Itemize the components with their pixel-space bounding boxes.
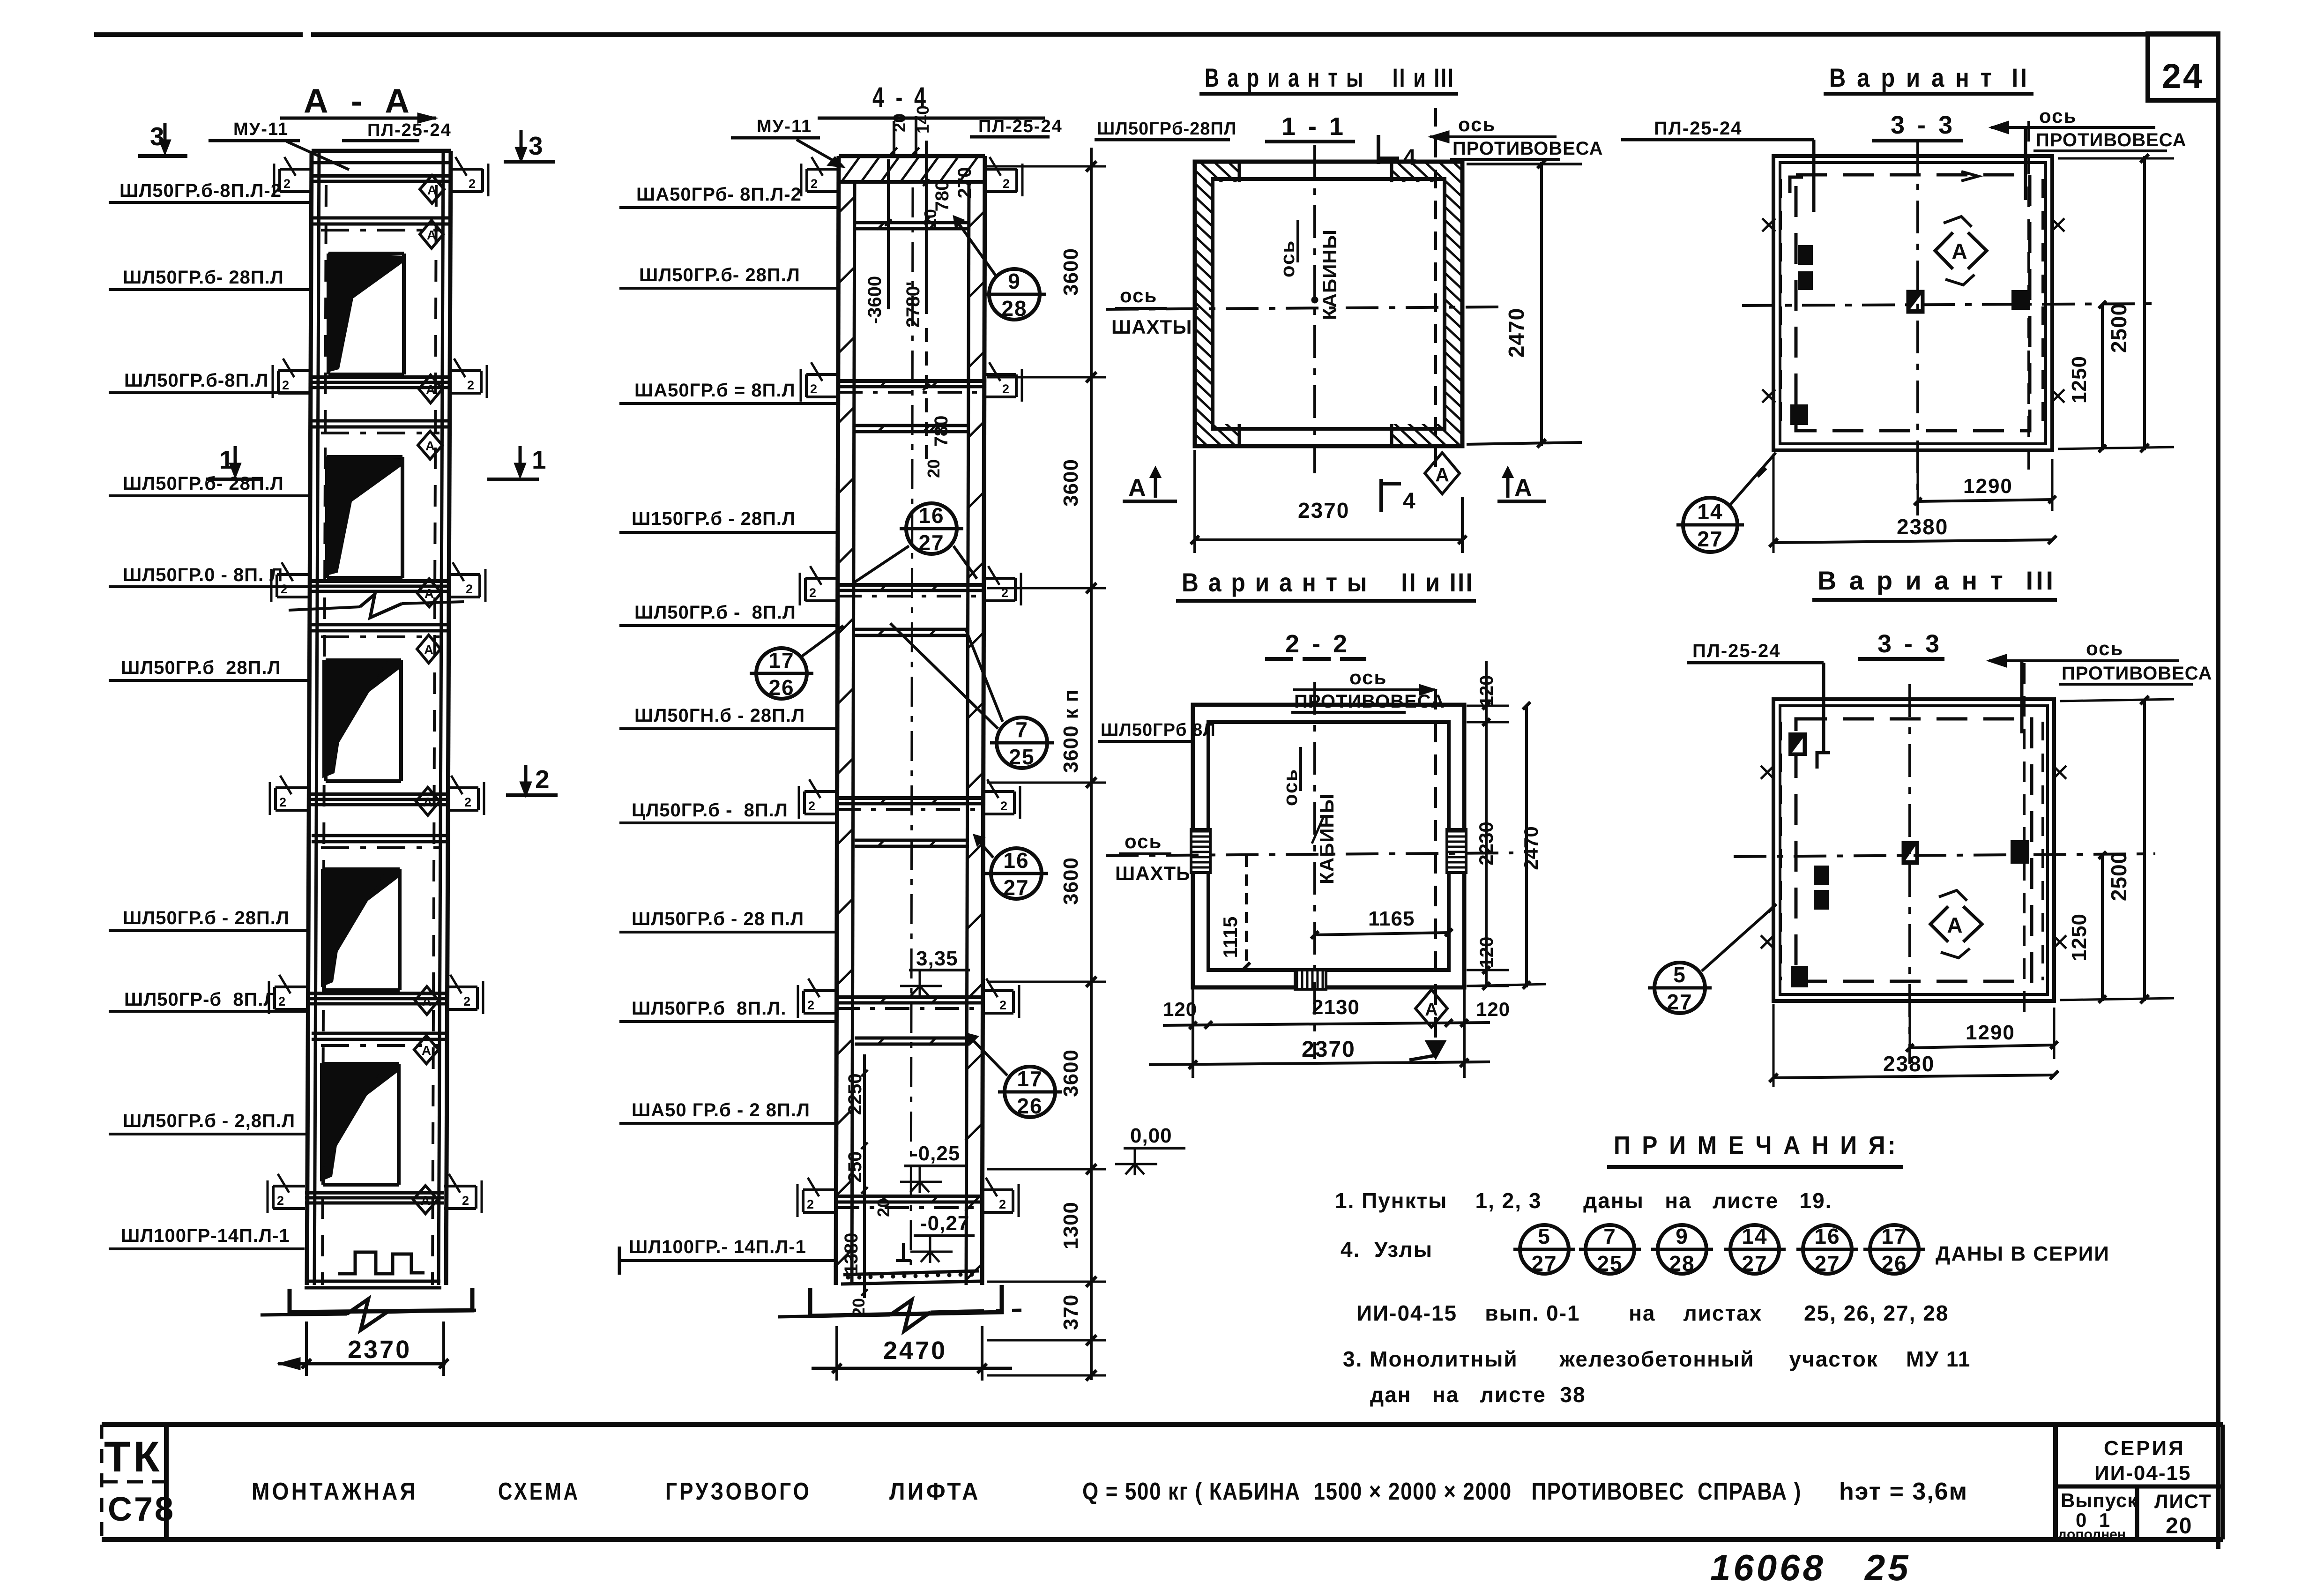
svg-text:А: А xyxy=(425,439,435,453)
4-4 level mark -0.27 xyxy=(910,1212,975,1263)
label ПЛ-25-24 (4-4) xyxy=(818,117,1063,137)
4-4 lintel band floor 2 xyxy=(855,840,969,847)
label ШЛ50ГРб-28ПЛ (1-1 plan top-left) xyxy=(1095,119,1236,140)
4-4 lintel band floor 4 xyxy=(855,425,969,433)
sheet number box 24 xyxy=(2148,34,2218,100)
svg-text:2250: 2250 xyxy=(845,1074,865,1115)
heading Вариант III xyxy=(1812,566,2057,600)
svg-text:ШЛ100ГР.- 14П.Л-1: ШЛ100ГР.- 14П.Л-1 xyxy=(629,1237,806,1257)
note node circle 5/27 xyxy=(1513,1224,1575,1276)
svg-text:2500: 2500 xyxy=(2107,303,2131,353)
plan 2-2 cab axis vertical xyxy=(1313,682,1316,1059)
4-4 left console at y=375 xyxy=(801,157,839,196)
svg-text:ТК: ТК xyxy=(104,1433,162,1481)
heading Варианты II и III (middle) xyxy=(1176,567,1476,601)
svg-text:-0,25: -0,25 xyxy=(911,1142,960,1165)
svg-text:20: 20 xyxy=(921,209,940,228)
svg-text:27: 27 xyxy=(1003,875,1029,900)
section mark 4 (top of plan 1-1) xyxy=(1378,135,1416,170)
А-А panel label ШЛ50ГР.б - 28П.Л xyxy=(109,908,307,931)
plan 1-1 shaft walls xyxy=(1195,162,1462,446)
note node circle 14/27 xyxy=(1724,1224,1786,1276)
svg-text:9: 9 xyxy=(1676,1224,1689,1248)
svg-text:2380: 2380 xyxy=(1897,515,1948,539)
А-А guide-rail diamond А at y=500 xyxy=(420,220,443,248)
А-А left console at y=375 xyxy=(274,157,312,196)
plan 2-2 bottom dims 120 2130 120 xyxy=(1163,989,1510,1078)
А-А door opening floor 4 xyxy=(327,457,402,578)
svg-text:2: 2 xyxy=(463,994,470,1008)
svg-text:ПЛ-25-24: ПЛ-25-24 xyxy=(1654,118,1742,139)
axis label ось шахты (2-2) xyxy=(1115,830,1196,884)
svg-text:ПРОТИВОВЕСА: ПРОТИВОВЕСА xyxy=(2062,663,2212,684)
А-А floor slab 3 xyxy=(307,794,447,805)
svg-text:А: А xyxy=(422,1043,431,1058)
4-4 floor slab 5 xyxy=(838,380,984,392)
svg-text:4. Узлы: 4. Узлы xyxy=(1341,1237,1433,1262)
plan 3-3 II extra dashed verticals xyxy=(1780,179,2043,429)
4-4 floor slab 2 xyxy=(835,996,982,1008)
plan 1-1 label ось кабины xyxy=(1276,220,1341,320)
4-4 left console at y=1695 xyxy=(799,779,836,819)
svg-text:А: А xyxy=(1435,464,1449,485)
svg-text:3600: 3600 xyxy=(1059,1049,1082,1097)
А-А panel label ШЛ50ГР.0 - 8П. Л xyxy=(109,565,309,587)
svg-text:2: 2 xyxy=(810,382,817,396)
section mark 3 right xyxy=(504,130,555,162)
А-А door opening floor 2 xyxy=(321,869,400,990)
svg-text:3,35: 3,35 xyxy=(916,947,958,970)
axis label ось шахты (1-1) xyxy=(1111,284,1192,338)
svg-text:2: 2 xyxy=(1002,382,1009,396)
note node circle 16/27 xyxy=(1796,1224,1858,1276)
plan 3-3 II dim 1250 xyxy=(2068,301,2106,452)
svg-text:3 - 3: 3 - 3 xyxy=(1877,630,1942,658)
А-А guide-rail diamond А at y=2135 xyxy=(415,986,439,1015)
svg-text:С78: С78 xyxy=(108,1491,175,1528)
4-4 pit interior dimensions xyxy=(841,1054,893,1317)
notes heading ПРИМЕЧАНИЯ: xyxy=(1607,1131,1903,1167)
4-4 left console at y=2120 xyxy=(798,978,835,1018)
4-4 right console at y=2545 xyxy=(981,1178,1019,1217)
plan 3-3 III shaft axis horizontal xyxy=(1734,854,2155,857)
А-А panel label ШЛ50ГР.б 28П.Л xyxy=(109,657,308,680)
plan 3-3 III counterweight axis xyxy=(2023,663,2026,1022)
4-4 node circle 16/27 (lower) xyxy=(974,835,1048,900)
4-4 bottom dimension 2470 xyxy=(812,1326,1012,1381)
plan 2-2 left wall door gap xyxy=(1191,829,1210,873)
svg-text:2: 2 xyxy=(464,795,471,809)
svg-text:120: 120 xyxy=(1476,998,1510,1020)
label ПЛ-25-24 (Вариант III) xyxy=(1687,641,1824,751)
svg-text:2370: 2370 xyxy=(1298,498,1349,523)
4-4 right console at y=2120 xyxy=(982,978,1019,1018)
А-А door opening floor 5 xyxy=(328,254,404,374)
svg-text:В а р и а н т ы II и III: В а р и а н т ы II и III xyxy=(1205,63,1455,92)
svg-text:А: А xyxy=(422,994,432,1008)
svg-text:1. Пункты 1, 2, 3 даны: 1. Пункты 1, 2, 3 даны на листе 19. xyxy=(1335,1188,1832,1213)
svg-text:А - А: А - А xyxy=(304,82,416,120)
4-4 wall hatch marks xyxy=(834,197,985,1281)
4-4 ground line with break xyxy=(778,1300,1021,1331)
svg-text:ШАХТЫ: ШАХТЫ xyxy=(1115,862,1196,884)
svg-text:25: 25 xyxy=(1009,745,1035,769)
4-4 mid dimensions 780 20 xyxy=(923,328,952,478)
plan 2-2 label ось кабины xyxy=(1279,747,1338,884)
А-А pit bottom slab xyxy=(305,1281,441,1288)
svg-text:ось: ось xyxy=(1120,284,1157,306)
section mark 3 left xyxy=(138,122,187,156)
4-4 panel label ША50 ГР.б - 2 8П.Л xyxy=(619,1100,835,1123)
А-А right console at y=1695 xyxy=(447,776,484,815)
svg-text:2: 2 xyxy=(1000,799,1007,813)
А-А floor slab 1 xyxy=(305,1193,444,1203)
svg-text:1250: 1250 xyxy=(2068,913,2091,961)
svg-text:СЕРИЯ: СЕРИЯ xyxy=(2104,1437,2185,1460)
svg-text:А: А xyxy=(424,642,433,657)
svg-text:ШЛ50ГР.б - 8П.Л: ШЛ50ГР.б - 8П.Л xyxy=(634,602,796,623)
svg-text:1300: 1300 xyxy=(1059,1202,1082,1249)
level mark 0.00 extension xyxy=(1045,1168,1106,1171)
section mark А up-right (plan 1-1) xyxy=(1497,468,1546,501)
axis label ось противовеса (Вариант III) xyxy=(1989,637,2212,733)
label МУ-11 (А-А) xyxy=(209,119,349,170)
svg-text:3 - 3: 3 - 3 xyxy=(1891,111,1955,139)
heading Вариант II xyxy=(1824,63,2033,94)
plan title 2-2 xyxy=(1265,630,1366,659)
plan 3-3 II dim 2380 xyxy=(1769,454,2056,553)
svg-text:ШЛ50ГР.б - 28 П.Л: ШЛ50ГР.б - 28 П.Л xyxy=(632,909,804,929)
section mark А up-left (plan 1-1) xyxy=(1123,468,1177,501)
4-4 node circle 17/26 (upper) xyxy=(750,626,843,700)
svg-text:Выпуск: Выпуск xyxy=(2061,1489,2138,1511)
4-4 right console at y=1695 xyxy=(983,779,1020,819)
А-А shaft top band xyxy=(312,151,451,163)
svg-text:ПРОТИВОВЕСА: ПРОТИВОВЕСА xyxy=(1452,138,1603,159)
svg-text:ША50ГРб- 8П.Л-2: ША50ГРб- 8П.Л-2 xyxy=(636,184,802,205)
svg-text:КАБИНЫ: КАБИНЫ xyxy=(1316,793,1338,884)
А-А lintel band floor 2 xyxy=(312,836,449,848)
svg-text:ШЛ50ГР.б- 28П.Л: ШЛ50ГР.б- 28П.Л xyxy=(123,473,284,494)
axis label ось противовеса (2-2) xyxy=(1291,666,1445,712)
svg-text:ось: ось xyxy=(1349,666,1387,688)
svg-text:16: 16 xyxy=(1814,1224,1840,1248)
section mark 4 (bottom of plan 1-1) xyxy=(1381,479,1415,514)
А-А roof slab ПЛ-25-24 xyxy=(312,176,451,181)
svg-text:ШЛ50ГР.б - 2,8П.Л: ШЛ50ГР.б - 2,8П.Л xyxy=(123,1111,295,1131)
svg-text:ШАХТЫ: ШАХТЫ xyxy=(1111,316,1192,338)
svg-text:П Р И М Е Ч А Н И Я:: П Р И М Е Ч А Н И Я: xyxy=(1614,1131,1898,1159)
svg-text:Q = 500 кг ( КАБИНА 1500 × 20: Q = 500 кг ( КАБИНА 1500 × 2000 × 2000 П… xyxy=(1082,1478,1802,1505)
svg-text:ПЛ-25-24: ПЛ-25-24 xyxy=(978,117,1063,136)
svg-text:4: 4 xyxy=(1403,489,1415,514)
svg-text:2370: 2370 xyxy=(348,1336,411,1364)
А-А right console at y=375 xyxy=(451,157,488,196)
svg-text:1380: 1380 xyxy=(841,1233,862,1275)
svg-text:2470: 2470 xyxy=(1520,826,1542,870)
svg-text:2: 2 xyxy=(999,1197,1006,1211)
svg-text:5: 5 xyxy=(1673,963,1686,987)
svg-text:27: 27 xyxy=(1742,1251,1767,1276)
svg-text:ША50ГР.б = 8П.Л: ША50ГР.б = 8П.Л xyxy=(634,380,796,401)
А-А pit buffer supports xyxy=(338,1252,425,1274)
А-А guide-rail diamond А at y=1265 xyxy=(417,579,441,607)
label ШЛ50ГРб 8Л (2-2) xyxy=(1098,720,1216,741)
svg-text:3: 3 xyxy=(529,131,543,160)
А-А foundation block xyxy=(290,1288,472,1312)
4-4 node circle 16/27 xyxy=(853,503,977,583)
plan 2-2 bottom dim 2370 xyxy=(1149,1037,1490,1069)
svg-text:дополнен: дополнен xyxy=(2058,1527,2126,1542)
А-А lintel band floor 5 xyxy=(312,218,449,230)
svg-text:1250: 1250 xyxy=(2068,356,2091,403)
plan 1-1 corner hatch separators xyxy=(1239,162,1392,446)
4-4 panel label ША50ГР.б = 8П.Л xyxy=(619,380,838,403)
svg-text:20: 20 xyxy=(874,1198,893,1217)
plan 3-3 III corner x-marks xyxy=(1761,766,2066,948)
4-4 left console at y=1240 xyxy=(800,566,837,605)
plan 1-1 dimension 2470 right xyxy=(1467,160,1582,448)
plan title 3-3 (Вариант II) xyxy=(1872,111,1963,141)
svg-text:1165: 1165 xyxy=(1368,907,1415,930)
4-4 lintel band floor 3 xyxy=(855,629,969,636)
svg-text:ША50 ГР.б - 2 8П.Л: ША50 ГР.б - 2 8П.Л xyxy=(632,1100,810,1120)
svg-text:А: А xyxy=(1952,239,1967,263)
sheet cell ЛИСТ 20 xyxy=(2154,1490,2212,1538)
svg-text:20: 20 xyxy=(2166,1514,2192,1538)
plan 3-3 Вариант III slab outline xyxy=(1773,699,2054,1001)
plan title 1-1 xyxy=(1265,112,1355,142)
А-А floor slab 2 xyxy=(306,993,446,1004)
svg-text:2: 2 xyxy=(466,582,473,596)
axis label ось противовеса (1-1) xyxy=(1430,113,1603,159)
plan 2-2 bottom wall gap xyxy=(1295,970,1326,989)
svg-text:0,00: 0,00 xyxy=(1130,1124,1172,1147)
svg-text:9: 9 xyxy=(1008,269,1021,293)
svg-text:ШЛ50ГР.б-8П.Л: ШЛ50ГР.б-8П.Л xyxy=(124,370,268,391)
svg-text:2: 2 xyxy=(999,998,1006,1012)
4-4 right dimension chain 3600 xyxy=(987,148,1106,1381)
plan 3-3 II dashed-line arrow xyxy=(1961,172,1978,181)
А-А right console at y=2120 xyxy=(446,975,483,1014)
svg-text:А: А xyxy=(1425,1000,1438,1020)
А-А lintel band floor 3 xyxy=(312,625,449,637)
svg-text:А: А xyxy=(1514,474,1532,501)
svg-text:2: 2 xyxy=(462,1194,469,1208)
4-4 panel label ША50ГРб- 8П.Л-2 xyxy=(619,184,839,208)
diamond А (plan 2-2 bottom) xyxy=(1415,990,1447,1027)
svg-text:Ш150ГР.б - 28П.Л: Ш150ГР.б - 28П.Л xyxy=(632,508,796,529)
plan 3-3 III extra dashed verticals xyxy=(1780,722,2043,980)
svg-text:2: 2 xyxy=(535,765,550,794)
plan 3-3 III dim 1290 xyxy=(1906,1008,2058,1059)
4-4 right console at y=805 xyxy=(984,362,1022,402)
svg-text:ДАНЫ В СЕРИИ: ДАНЫ В СЕРИИ xyxy=(1936,1242,2110,1265)
svg-text:2370: 2370 xyxy=(1302,1037,1356,1062)
4-4 panel label ШЛ50ГР.б - 28 П.Л xyxy=(619,909,836,932)
svg-text:20: 20 xyxy=(924,459,943,478)
plan 2-2 right wall door gap xyxy=(1447,829,1466,873)
svg-text:26: 26 xyxy=(768,675,794,700)
plan 3-3 II dim 1290 xyxy=(1914,459,2056,511)
plan 1-1 counterweight axis vertical xyxy=(1434,108,1437,473)
svg-text:2: 2 xyxy=(469,177,476,191)
svg-text:А: А xyxy=(421,1193,430,1208)
plan 3-3 II diamond А xyxy=(1935,217,1987,285)
plan 3-3 III dim 2500 xyxy=(2060,696,2174,1003)
svg-text:20: 20 xyxy=(890,113,909,132)
plan 3-3 III cab axis vertical xyxy=(1908,684,1911,1064)
4-4 panel label ШЛ50ГР.б 8П.Л. xyxy=(619,998,835,1022)
svg-text:ШЛ50ГР.б-8П.Л-2: ШЛ50ГР.б-8П.Л-2 xyxy=(119,180,282,201)
svg-text:ЛИСТ: ЛИСТ xyxy=(2154,1490,2212,1512)
4-4 level mark -0.25 xyxy=(900,1142,965,1193)
plan 2-2 interior dim 1165 xyxy=(1311,907,1452,939)
svg-text:250: 250 xyxy=(845,1151,865,1183)
А-А panel label ШЛ100ГР-14П.Л-1 xyxy=(109,1225,305,1249)
svg-text:1290: 1290 xyxy=(1963,475,2013,498)
А-А floor slab 5 xyxy=(310,377,449,388)
А-А left console at y=2120 xyxy=(269,975,306,1014)
svg-text:ИИ-04-15: ИИ-04-15 xyxy=(2094,1462,2191,1485)
А-А guide-rail diamond А at y=1385 xyxy=(417,635,440,663)
label ПЛ-25-24 (А-А) xyxy=(280,113,452,141)
svg-text:1: 1 xyxy=(219,445,234,474)
plan 3-3 II anchor squares xyxy=(1792,246,2029,424)
А-А guide-rail diamond А at y=950 xyxy=(418,431,442,459)
svg-text:А: А xyxy=(426,382,435,397)
svg-text:24: 24 xyxy=(2162,57,2204,96)
А-А door opening floor 1 xyxy=(320,1064,399,1185)
svg-text:25: 25 xyxy=(1597,1251,1623,1276)
svg-text:2: 2 xyxy=(807,998,814,1012)
svg-text:ЛИФТА: ЛИФТА xyxy=(889,1478,981,1505)
svg-text:2: 2 xyxy=(811,177,818,191)
4-4 foundation block xyxy=(810,1285,1002,1316)
svg-text:ПРОТИВОВЕСА: ПРОТИВОВЕСА xyxy=(1294,691,1445,712)
svg-text:ШЛ50ГР.б - 28П.Л: ШЛ50ГР.б - 28П.Л xyxy=(123,908,290,928)
svg-text:ось: ось xyxy=(1125,830,1162,852)
4-4 right console at y=1240 xyxy=(983,566,1021,605)
svg-text:ось: ось xyxy=(2039,105,2077,127)
svg-text:ШЛ50ГР.б- 28П.Л: ШЛ50ГР.б- 28П.Л xyxy=(123,267,284,288)
plan 1-1 shaft axis horizontal xyxy=(1106,307,1502,309)
svg-text:2130: 2130 xyxy=(1312,996,1360,1019)
section mark 1 left xyxy=(206,445,262,479)
А-А lintel band floor 4 xyxy=(312,421,449,433)
plan 2-2 shaft axis horizontal xyxy=(1106,853,1513,856)
svg-text:ПРОТИВОВЕСА: ПРОТИВОВЕСА xyxy=(2036,130,2187,150)
plan 2-2 interior dim 1115 xyxy=(1219,856,1250,970)
title block frame xyxy=(102,1425,2223,1539)
svg-text:В а р и а н т ы II и III: В а р и а н т ы II и III xyxy=(1182,567,1474,597)
svg-text:270: 270 xyxy=(954,167,975,199)
А-А guide-rail diamond А at y=404 xyxy=(420,175,444,203)
svg-text:2470: 2470 xyxy=(883,1337,947,1365)
А-А left console at y=805 xyxy=(273,358,310,398)
plan 3-3 II corner x-marks xyxy=(1762,218,2064,403)
svg-text:А: А xyxy=(427,228,436,242)
А-А bottom dimension 2370 xyxy=(278,1322,448,1376)
svg-text:ШЛ50ГР.б- 28П.Л: ШЛ50ГР.б- 28П.Л xyxy=(639,265,800,285)
А-А shaft walls xyxy=(307,151,451,1285)
svg-text:27: 27 xyxy=(1814,1251,1840,1276)
svg-text:hэт = 3,6м: hэт = 3,6м xyxy=(1839,1478,1968,1505)
issue cell Выпуск 0-1 xyxy=(2058,1489,2138,1542)
svg-text:2: 2 xyxy=(808,799,815,813)
svg-text:7: 7 xyxy=(1603,1224,1616,1248)
А-А lintel band floor 1 xyxy=(312,1033,449,1045)
А-А guide-rail diamond А at y=2240 xyxy=(414,1036,439,1064)
А-А left console at y=2545 xyxy=(268,1174,305,1213)
А-А panel label ШЛ50ГР.б - 2,8П.Л xyxy=(109,1111,305,1134)
note node circle 7/25 xyxy=(1579,1224,1641,1276)
series cell СЕРИЯ ИИ-04-15 xyxy=(2094,1437,2191,1485)
svg-text:2: 2 xyxy=(283,177,290,191)
svg-text:17: 17 xyxy=(1881,1224,1907,1248)
svg-text:А: А xyxy=(1128,474,1146,501)
plan 1-1 cab axis vertical xyxy=(1313,145,1316,473)
svg-text:1290: 1290 xyxy=(1966,1021,2015,1044)
svg-text:ось: ось xyxy=(1276,240,1298,277)
svg-text:2: 2 xyxy=(278,994,285,1008)
sheet top border line xyxy=(94,34,2218,35)
svg-text:780: 780 xyxy=(931,416,952,447)
section mark 2 right xyxy=(506,765,558,795)
svg-text:А: А xyxy=(425,586,434,601)
svg-text:5: 5 xyxy=(1538,1224,1551,1248)
node circle 5/27 (plan 2-2 / Вариант III) xyxy=(1648,904,1776,1014)
svg-text:ШЛ50ГРб-28ПЛ: ШЛ50ГРб-28ПЛ xyxy=(1097,119,1236,139)
4-4 lintel band floor 5 xyxy=(855,222,969,230)
А-А left console at y=1695 xyxy=(270,776,307,815)
svg-text:МУ-11: МУ-11 xyxy=(757,117,812,136)
svg-text:2: 2 xyxy=(807,1197,814,1211)
note node circle 17/26 xyxy=(1863,1224,1925,1276)
svg-text:1 - 1: 1 - 1 xyxy=(1281,112,1346,141)
plan title 3-3 (Вариант III) xyxy=(1858,630,1944,659)
svg-text:КАБИНЫ: КАБИНЫ xyxy=(1318,229,1341,320)
svg-text:2: 2 xyxy=(1003,177,1010,191)
plan 3-3 II corner plate mark xyxy=(1790,177,1803,193)
А-А door opening floor 3 xyxy=(323,660,401,781)
svg-text:-3600: -3600 xyxy=(864,276,885,324)
А-А panel label ШЛ50ГР-б 8П.Л xyxy=(109,989,306,1011)
svg-text:2470: 2470 xyxy=(1504,308,1528,358)
А-А guide-rail diamond А at y=830 xyxy=(419,375,442,403)
svg-text:140: 140 xyxy=(913,105,932,134)
А-А right console at y=2545 xyxy=(444,1174,482,1213)
label МУ-11 (4-4) xyxy=(731,117,843,167)
svg-text:120: 120 xyxy=(1476,937,1497,968)
svg-text:17: 17 xyxy=(1017,1067,1043,1091)
svg-text:3600 к п: 3600 к п xyxy=(1059,689,1082,773)
sheet right border line xyxy=(2216,34,2220,1549)
svg-text:14: 14 xyxy=(1742,1224,1767,1248)
svg-text:ПЛ-25-24: ПЛ-25-24 xyxy=(1692,641,1780,661)
svg-text:МУ-11: МУ-11 xyxy=(233,119,289,139)
svg-text:26: 26 xyxy=(1017,1094,1043,1118)
svg-text:В а р и а н т III: В а р и а н т III xyxy=(1817,566,2056,595)
svg-text:1115: 1115 xyxy=(1219,917,1241,958)
svg-text:-0,27: -0,27 xyxy=(920,1212,969,1235)
4-4 right console at y=375 xyxy=(985,157,1022,196)
4-4 panel label ШЛ50ГР.б - 8П.Л xyxy=(619,602,837,626)
4-4 pit floor with concrete dots xyxy=(841,1243,980,1284)
svg-text:3600: 3600 xyxy=(1059,857,1082,905)
svg-text:дан на листе 38: дан на листе 38 xyxy=(1370,1382,1586,1407)
svg-text:А: А xyxy=(427,183,437,197)
